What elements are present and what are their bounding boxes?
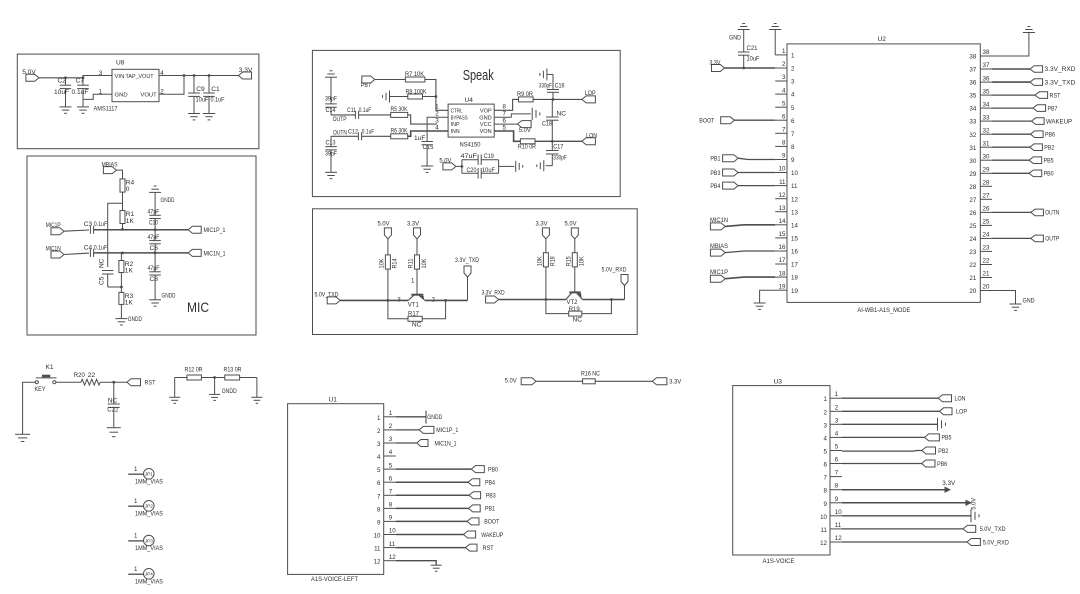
svg-text:LOP: LOP (585, 90, 596, 97)
svg-text:24: 24 (969, 236, 976, 243)
svg-text:1: 1 (134, 566, 138, 573)
wire R13 right (240, 378, 257, 398)
svg-text:2: 2 (791, 66, 795, 73)
svg-text:R7 10K: R7 10K (405, 71, 425, 78)
svg-text:VOP: VOP (480, 108, 492, 114)
capacitor C18 NC (542, 99, 566, 141)
net flag 3.3V_TXD (455, 257, 479, 300)
wire U3 pin12 (842, 541, 967, 543)
U3 pins 1-12 (820, 391, 842, 547)
resistor R16 NC (581, 371, 600, 384)
svg-text:1MM_VIAS: 1MM_VIAS (135, 545, 163, 552)
svg-text:2: 2 (782, 61, 786, 68)
wire 3.3V output net (168, 74, 239, 77)
wire pin38 to ground (992, 33, 1029, 57)
svg-text:MIC1N_1: MIC1N_1 (204, 250, 226, 257)
connector JP1 1MM_VIAS (128, 466, 163, 486)
net flag PB3 U1 (469, 492, 496, 500)
resistor R18 10K (537, 253, 557, 267)
wire pin12 to ground (396, 561, 437, 566)
wire R7 to CTRL (425, 80, 448, 111)
svg-text:30: 30 (983, 153, 990, 160)
svg-text:31: 31 (983, 140, 990, 147)
svg-text:10uF: 10uF (747, 55, 760, 62)
svg-text:R15: R15 (565, 256, 572, 266)
svg-text:38: 38 (969, 54, 976, 61)
capacitor C3 0.1uF (84, 221, 108, 234)
svg-text:NS4150: NS4150 (460, 142, 481, 149)
net flag RST U1 (466, 544, 494, 552)
net flag 5.0V VCC (518, 121, 532, 134)
svg-text:RST: RST (145, 380, 156, 387)
power flag 5.0V VT1 (378, 220, 392, 239)
svg-text:GNDD: GNDD (222, 388, 237, 395)
wire 3.3V_RXD pin37 (992, 68, 1030, 70)
net flag BOOT U1 (467, 518, 499, 526)
svg-text:GNDD: GNDD (162, 293, 176, 300)
net flag MBIAS U2 (710, 243, 729, 256)
svg-text:3.3V_RXD: 3.3V_RXD (482, 290, 505, 297)
svg-text:C5: C5 (99, 276, 106, 285)
svg-text:PB2: PB2 (1044, 144, 1054, 151)
net flag 5.0V_RXD (602, 267, 629, 300)
connector JP3 1MM_VIAS (128, 533, 163, 553)
svg-text:U3: U3 (774, 378, 783, 385)
svg-text:11: 11 (779, 179, 786, 186)
U2 left pins 1-19 (775, 48, 798, 295)
svg-text:11: 11 (389, 541, 396, 548)
wire K1 to R20 (56, 381, 81, 383)
svg-text:10: 10 (791, 170, 798, 177)
net flag 3.3V out (239, 67, 253, 79)
svg-text:C15: C15 (423, 144, 434, 151)
svg-text:VOUT: VOUT (140, 93, 157, 99)
ground C19 C20 (516, 161, 523, 172)
wire C17 to ground (546, 165, 553, 167)
svg-text:GND: GND (1023, 297, 1035, 304)
net flag PB1 U1 (469, 505, 496, 513)
ground GNDD R3 (115, 316, 142, 325)
svg-text:37: 37 (969, 67, 976, 74)
U2 right pins 20-38 (969, 49, 992, 295)
wire junction to C5 (108, 203, 123, 267)
svg-text:BOOT: BOOT (484, 519, 499, 526)
svg-text:U2: U2 (878, 36, 887, 43)
svg-text:3.3V: 3.3V (942, 480, 956, 487)
net flag 5.0V_TXD U3 (963, 525, 1006, 533)
ground GNDD mid (209, 378, 237, 401)
svg-text:GNDD: GNDD (128, 316, 142, 323)
svg-text:1: 1 (411, 277, 415, 284)
wire U3 pin11 (842, 528, 963, 530)
svg-text:NC: NC (557, 110, 567, 117)
wire 5.0V to R15 (574, 239, 576, 253)
svg-text:MIC: MIC (187, 300, 209, 315)
resistor R19 NC (546, 300, 612, 324)
svg-text:16: 16 (791, 249, 798, 256)
wire OUTN pin26 (992, 211, 1031, 213)
wire VOUT to output (168, 76, 184, 95)
svg-text:21: 21 (983, 271, 990, 278)
net flag BOOT (699, 117, 734, 125)
svg-text:330pF: 330pF (539, 82, 552, 89)
svg-text:PB2: PB2 (938, 448, 948, 455)
svg-text:33: 33 (969, 119, 976, 126)
svg-text:35: 35 (969, 93, 976, 100)
ground C13 (325, 172, 337, 178)
resistor R8 100K (406, 88, 427, 99)
wire MIC1N pin14 (725, 225, 775, 227)
svg-text:5.0V: 5.0V (22, 69, 36, 76)
net flag OUTN (333, 129, 347, 136)
svg-text:1K: 1K (125, 299, 134, 306)
svg-text:18: 18 (791, 275, 798, 282)
svg-text:3: 3 (99, 70, 103, 77)
svg-text:PB5: PB5 (942, 435, 952, 442)
net flag PB3 (710, 169, 738, 177)
svg-text:C21: C21 (747, 45, 758, 52)
svg-text:12: 12 (374, 559, 381, 566)
svg-text:BYPASS: BYPASS (451, 115, 468, 121)
svg-text:7: 7 (377, 493, 381, 500)
svg-text:1: 1 (377, 415, 381, 422)
svg-text:1K: 1K (126, 218, 135, 225)
svg-text:MIC1P: MIC1P (710, 269, 729, 276)
svg-text:PB1: PB1 (710, 156, 720, 163)
svg-text:22: 22 (969, 262, 976, 269)
wire 3.3V_TXD pin36 (992, 81, 1030, 83)
svg-text:0.1uF: 0.1uF (94, 221, 108, 228)
svg-text:39pF: 39pF (325, 96, 337, 103)
ground U1 pin12 (431, 565, 442, 571)
net flag 3.3V_TXD (1030, 79, 1076, 87)
svg-text:31: 31 (969, 145, 976, 152)
svg-text:8: 8 (824, 488, 828, 495)
svg-text:PB6: PB6 (1045, 131, 1055, 138)
svg-text:10uF: 10uF (54, 89, 69, 96)
svg-text:R13 0R: R13 0R (224, 367, 242, 374)
wire U3 pin3 (842, 423, 938, 425)
resistor R17 NC (388, 300, 446, 328)
resistor R20 22 (74, 372, 100, 385)
svg-text:15: 15 (779, 231, 786, 238)
svg-text:2: 2 (389, 423, 393, 430)
svg-text:R8 100K: R8 100K (406, 88, 427, 95)
svg-text:3: 3 (782, 74, 786, 81)
capacitor C4 0.1uF (84, 244, 108, 257)
wire pin1 GNDD bar (396, 411, 443, 424)
wire BOOT pin6 (734, 119, 775, 121)
ground pin1 (769, 24, 781, 30)
svg-text:10: 10 (835, 509, 842, 516)
wire R1 to MIC1P net (121, 224, 124, 231)
net flag MIC1P U2 (710, 269, 729, 282)
svg-text:36: 36 (969, 80, 976, 87)
svg-text:PB4: PB4 (710, 183, 720, 190)
svg-text:15: 15 (791, 236, 798, 243)
svg-text:0.1uF: 0.1uF (94, 244, 108, 251)
svg-text:10K: 10K (579, 256, 586, 267)
svg-text:3: 3 (824, 422, 828, 429)
svg-text:3.3V: 3.3V (407, 220, 420, 227)
wire GND pin7 (494, 114, 531, 117)
net flag LON (582, 133, 597, 145)
svg-text:C12: C12 (348, 128, 358, 135)
svg-text:23: 23 (983, 245, 990, 252)
resistor R15 10K (565, 253, 585, 267)
svg-text:3.3V_TXD: 3.3V_TXD (1045, 79, 1076, 86)
wire U3 pin6 (842, 463, 922, 465)
svg-text:5.0V: 5.0V (565, 220, 578, 227)
wire MIC1P pin18 (725, 277, 775, 279)
svg-text:47pF: 47pF (148, 234, 160, 241)
resistor R12 0R (185, 367, 203, 381)
node OUTP (333, 116, 347, 123)
svg-text:MIC1N_1: MIC1N_1 (435, 440, 457, 447)
svg-text:20: 20 (969, 288, 976, 295)
svg-text:10: 10 (389, 528, 396, 535)
wire PB0 pin29 (992, 172, 1029, 174)
ground GND top (729, 24, 750, 42)
svg-text:10K: 10K (421, 258, 428, 269)
ground GNDD C10 top (149, 186, 175, 204)
svg-text:2: 2 (160, 89, 164, 96)
op-amp U4 NS4150 (435, 97, 506, 149)
wire OUTP pin24 (992, 237, 1031, 239)
svg-text:PB7: PB7 (1048, 105, 1058, 112)
svg-text:C4: C4 (84, 244, 93, 251)
wire R18 to RXD net (545, 267, 548, 301)
svg-text:3.3V: 3.3V (536, 220, 549, 227)
wire WAKEUP pin33 (992, 120, 1031, 122)
ground C15 (421, 166, 433, 172)
wire U1 pin11 RST (396, 547, 466, 549)
capacitor C21 10uF (738, 30, 760, 69)
resistor R2 1K (119, 253, 134, 293)
svg-text:5: 5 (389, 462, 393, 469)
ground C9 (188, 114, 200, 120)
capacitor C19 47uF (461, 153, 499, 173)
wire MIC1N_1 net (94, 252, 189, 255)
wire U3 pin5 (842, 450, 922, 453)
svg-text:9: 9 (389, 515, 393, 522)
svg-text:24: 24 (983, 232, 990, 239)
capacitor C10 47pF (148, 192, 161, 229)
svg-text:14: 14 (779, 218, 786, 225)
svg-text:20: 20 (983, 284, 990, 291)
svg-text:37: 37 (983, 62, 990, 69)
svg-text:47pF: 47pF (148, 208, 160, 215)
svg-text:6: 6 (389, 475, 393, 482)
svg-text:1: 1 (134, 498, 138, 505)
svg-text:4: 4 (791, 92, 795, 99)
svg-text:NC: NC (99, 258, 106, 268)
net flag 3.3V_RXD (1030, 66, 1076, 74)
svg-text:A1S-VOICE: A1S-VOICE (763, 558, 796, 565)
svg-text:GNDD: GNDD (427, 414, 442, 421)
speak block frame (312, 50, 620, 196)
svg-text:PB3: PB3 (710, 170, 720, 177)
svg-text:MIC1P: MIC1P (46, 222, 61, 229)
net flag PB6 U3 (922, 460, 948, 468)
svg-text:36: 36 (983, 75, 990, 82)
wire PB6 pin32 (992, 133, 1030, 135)
net flag MIC1N (46, 245, 64, 258)
svg-text:16: 16 (779, 244, 786, 251)
svg-text:5.0V_TXD: 5.0V_TXD (980, 526, 1006, 533)
svg-text:17: 17 (791, 262, 798, 269)
svg-text:R20: R20 (74, 372, 85, 379)
capacitor C6 47pF (148, 230, 161, 254)
svg-text:9: 9 (824, 501, 828, 508)
capacitor C7 0.1uF (72, 78, 89, 107)
wire R15 to base (574, 267, 576, 292)
svg-text:MIC1N: MIC1N (710, 217, 728, 224)
ground C2 (60, 107, 72, 113)
wire C12 to R6 (362, 135, 391, 137)
svg-text:C16: C16 (555, 82, 565, 89)
svg-text:13: 13 (791, 209, 798, 216)
svg-text:4: 4 (377, 454, 381, 461)
ground GND pin20 (1010, 297, 1035, 310)
capacitor C13 39pF (325, 136, 337, 172)
wire K1 to ground (23, 382, 36, 434)
svg-text:WAKEUP: WAKEUP (1046, 118, 1073, 125)
wire R20 to RST (100, 381, 127, 384)
switch K1 KEY (35, 364, 57, 393)
svg-text:32: 32 (969, 132, 976, 139)
net flag OUTN (1031, 209, 1060, 217)
svg-text:1MM_VIAS: 1MM_VIAS (135, 510, 163, 517)
svg-text:R16 NC: R16 NC (581, 371, 600, 378)
svg-text:5: 5 (835, 444, 839, 451)
resistor R1 1K (120, 211, 135, 225)
wire R12 R13 (201, 376, 224, 379)
svg-text:1uF: 1uF (414, 135, 425, 142)
svg-text:3.3V: 3.3V (709, 59, 720, 66)
svg-text:R19: R19 (569, 306, 580, 313)
svg-text:LON: LON (955, 396, 966, 403)
net flag LOP U3 (939, 408, 967, 416)
capacitor C9 10uF (188, 76, 208, 114)
svg-text:23: 23 (969, 249, 976, 256)
svg-text:6: 6 (791, 118, 795, 125)
svg-text:C13: C13 (326, 139, 336, 146)
svg-text:R5 30K: R5 30K (391, 106, 408, 113)
ground pin7 (532, 108, 540, 121)
wire R11 to base (411, 269, 417, 294)
svg-text:19: 19 (791, 288, 798, 295)
svg-text:8: 8 (377, 506, 381, 513)
svg-text:4: 4 (389, 449, 393, 456)
wire 3.3V_RXD net (499, 299, 566, 301)
svg-text:3.3V_TXD: 3.3V_TXD (455, 257, 479, 264)
svg-text:OUTP: OUTP (333, 116, 347, 123)
wire R6 to INN (408, 131, 448, 136)
net flag LON U3 (938, 395, 965, 403)
capacitor C1 0.1uF (203, 76, 224, 114)
wire pin3 (396, 442, 417, 444)
svg-text:JP2: JP2 (145, 504, 153, 509)
svg-text:38: 38 (983, 49, 990, 56)
svg-text:28: 28 (969, 184, 976, 191)
svg-text:U1: U1 (329, 397, 338, 404)
svg-text:C10: C10 (149, 220, 158, 227)
U1 pins 1-12 (374, 410, 397, 566)
ground pin19 (754, 303, 766, 309)
svg-text:330pF: 330pF (553, 154, 567, 161)
svg-text:6: 6 (782, 114, 786, 121)
svg-text:10: 10 (374, 533, 381, 540)
capacitor C22 NC (107, 382, 120, 428)
svg-text:Speak: Speak (463, 68, 495, 84)
ground C7 (77, 107, 89, 113)
svg-text:5.0V_RXD: 5.0V_RXD (983, 539, 1009, 546)
net flag MIC1N_1 U1 (417, 440, 457, 448)
svg-text:5.0V: 5.0V (505, 378, 518, 385)
svg-text:C14: C14 (326, 107, 336, 114)
svg-text:LON: LON (586, 133, 597, 140)
svg-text:0.1uF: 0.1uF (359, 107, 372, 114)
wire 3.3V to R11 (416, 239, 418, 255)
net flag RST (1035, 92, 1061, 100)
svg-text:C6: C6 (150, 245, 159, 252)
svg-text:INP: INP (451, 122, 460, 128)
wire 3.3V to pin2 (725, 67, 776, 70)
net flag PB2 (1030, 144, 1055, 152)
wire pin19 to ground (760, 290, 776, 303)
svg-text:35: 35 (983, 88, 990, 95)
ground C16 top (540, 68, 547, 80)
wire MIC1P_1 net (94, 228, 189, 231)
svg-text:5.0V_RXD: 5.0V_RXD (602, 267, 627, 274)
resistor R3 1K (119, 292, 134, 318)
svg-text:C1: C1 (211, 86, 220, 93)
power block frame (17, 54, 259, 149)
wire R4 to R1 (122, 192, 124, 210)
wire 5.0V to R16 (536, 380, 583, 382)
wire U1 pin8 PB1 (396, 507, 469, 509)
resistor R10 0R (518, 139, 536, 151)
net flag OUTP (1031, 235, 1060, 243)
svg-text:0.1uF: 0.1uF (362, 128, 375, 135)
wire U3 pin10 (842, 515, 971, 517)
svg-text:R9 0R: R9 0R (517, 91, 533, 98)
wire U1 pin10 WAKEUP (396, 534, 464, 536)
svg-text:C2: C2 (58, 78, 67, 85)
op-amp U2 module body (787, 36, 980, 314)
net flag 3.3V R16 (652, 378, 682, 386)
svg-text:1: 1 (835, 391, 839, 398)
svg-text:C8: C8 (150, 276, 159, 283)
svg-text:PB4: PB4 (485, 480, 495, 487)
svg-text:8: 8 (389, 502, 393, 509)
svg-text:R14: R14 (392, 258, 399, 268)
net flag PB0 U1 (471, 466, 498, 474)
svg-text:0.1uF: 0.1uF (211, 96, 225, 103)
svg-text:BOOT: BOOT (699, 118, 714, 125)
svg-text:INN: INN (451, 129, 460, 135)
svg-text:A1S-VOICE-LEFT: A1S-VOICE-LEFT (311, 576, 358, 583)
net flag 3.3V_RXD (482, 290, 505, 303)
svg-text:22: 22 (88, 372, 96, 379)
svg-text:MIC1P_1: MIC1P_1 (436, 427, 458, 434)
net flag PB6 (1031, 131, 1056, 139)
ground OUTP top (325, 71, 337, 77)
label Speak (463, 68, 495, 84)
wire U8 GND pin to ground (83, 94, 104, 99)
svg-text:5: 5 (782, 100, 786, 107)
